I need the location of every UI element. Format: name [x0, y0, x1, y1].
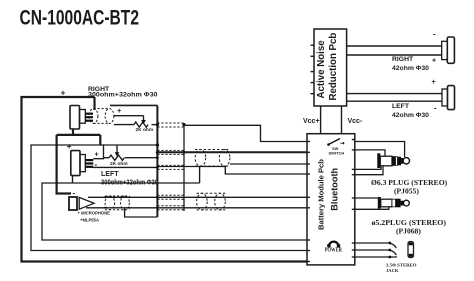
svg-text:42ohm Φ30: 42ohm Φ30 [392, 65, 429, 72]
svg-text:Vcc-: Vcc- [348, 118, 363, 125]
svg-text:+MLP55A: +MLP55A [80, 218, 99, 223]
svg-text:3.5Φ STEREO: 3.5Φ STEREO [386, 263, 417, 268]
svg-text:+: + [432, 79, 436, 86]
svg-text:Reduction Pcb: Reduction Pcb [328, 33, 339, 101]
svg-text:-: - [95, 160, 98, 169]
svg-text:-: - [433, 30, 436, 39]
svg-text:-: - [73, 188, 76, 197]
svg-text:2K ohm: 2K ohm [136, 127, 154, 133]
svg-text:+: + [61, 88, 66, 98]
svg-text:CN-1000AC-BT2: CN-1000AC-BT2 [20, 6, 140, 30]
svg-text:2K ohm: 2K ohm [110, 161, 128, 167]
svg-text:Battery Module Pcb: Battery Module Pcb [317, 159, 326, 230]
svg-text:RIGHT: RIGHT [392, 56, 414, 63]
svg-text:LEFT: LEFT [392, 103, 410, 110]
svg-text:Vcc+: Vcc+ [303, 118, 320, 125]
svg-text:SWITCH: SWITCH [329, 151, 345, 156]
svg-text:POWER: POWER [325, 247, 343, 254]
svg-text:+: + [117, 106, 122, 115]
svg-text:(PJ055): (PJ055) [394, 187, 419, 196]
svg-text:42ohm Φ30: 42ohm Φ30 [392, 112, 429, 119]
svg-text:+: + [432, 58, 436, 65]
svg-text:-: - [434, 104, 437, 113]
svg-text:300ohm+32ohm Φ30: 300ohm+32ohm Φ30 [101, 180, 158, 187]
svg-text:LEFT: LEFT [101, 171, 119, 178]
svg-text:+: + [95, 152, 99, 159]
svg-text:+ MICROPHONE: + MICROPHONE [78, 211, 111, 216]
svg-text:JACK: JACK [386, 268, 399, 273]
svg-text:(PJ068): (PJ068) [396, 227, 421, 236]
svg-text:300ohm+32ohm Φ30: 300ohm+32ohm Φ30 [88, 92, 158, 99]
svg-text:Bluetooth: Bluetooth [330, 167, 340, 210]
svg-text:Active Noise: Active Noise [316, 40, 327, 99]
svg-text:+: + [67, 142, 72, 151]
